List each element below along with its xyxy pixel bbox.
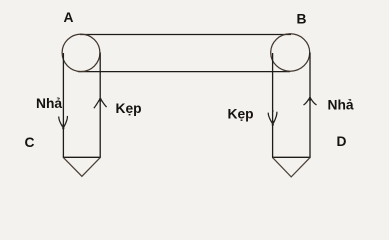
svg-text:A: A (64, 10, 74, 25)
belt bottom line (78, 71, 290, 73)
svg-text:Kẹp: Kẹp (228, 107, 254, 122)
gripper C wedge (63, 158, 100, 177)
gripper D bar (272, 156, 311, 158)
gripper D wedge (273, 158, 310, 177)
svg-text:Kẹp: Kẹp (116, 101, 142, 116)
arrow down on right-inner rope (268, 110, 277, 123)
svg-text:C: C (25, 135, 35, 150)
svg-text:Nhả: Nhả (36, 96, 62, 111)
rope right-outer (up side of D gripper) (309, 53, 311, 158)
pulley B (271, 34, 310, 71)
arrow down on left-outer rope (59, 116, 68, 127)
arrow up on left-inner rope (94, 98, 107, 108)
svg-text:B: B (297, 12, 307, 27)
gripper C bar (63, 156, 101, 158)
rope left-inner (up side of C gripper) (99, 53, 101, 158)
svg-text:D: D (337, 134, 347, 149)
arrow up on right-outer rope (304, 97, 317, 105)
svg-text:Nhả: Nhả (328, 98, 354, 113)
pulley A (62, 34, 100, 71)
rope right-inner (down side of D gripper) (272, 53, 274, 157)
belt top line (80, 34, 291, 36)
rope left-outer (down side of C gripper) (62, 53, 64, 157)
